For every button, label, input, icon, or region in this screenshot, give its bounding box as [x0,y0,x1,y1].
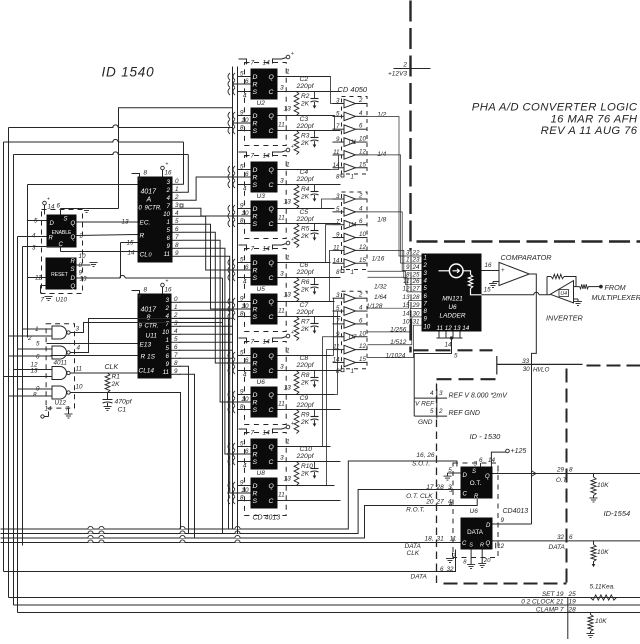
svg-text:14: 14 [333,356,340,363]
svg-text:4: 4 [359,110,363,117]
svg-text:8: 8 [569,467,573,474]
svg-text:D: D [253,74,258,81]
svg-text:8: 8 [144,170,148,177]
svg-text:CD 4013: CD 4013 [253,515,281,522]
svg-text:7: 7 [251,430,255,437]
svg-text:R: R [253,400,258,407]
svg-text:C: C [269,89,274,96]
svg-text:SET 19: SET 19 [542,591,564,598]
svg-text:220pf: 220pf [296,362,315,369]
svg-text:COMPARATOR: COMPARATOR [501,253,553,262]
svg-text:4017: 4017 [141,189,158,196]
svg-text:Q: Q [269,260,275,267]
svg-text:2K: 2K [300,140,310,147]
svg-text:1: 1 [286,348,290,355]
svg-text:E13: E13 [140,342,152,349]
svg-text:RESET: RESET [51,272,68,278]
svg-text:C: C [269,407,274,414]
svg-text:11: 11 [278,122,285,129]
svg-text:7: 7 [251,153,255,160]
svg-text:16, 26: 16, 26 [416,452,434,459]
svg-text:10: 10 [76,384,84,391]
svg-text:3: 3 [406,250,410,257]
svg-text:C9: C9 [300,395,309,402]
svg-text:5: 5 [36,341,40,348]
svg-text:12: 12 [497,543,505,550]
svg-text:11: 11 [450,536,457,543]
svg-text:1: 1 [286,69,290,76]
svg-text:28: 28 [568,606,577,613]
svg-text:REF V 8.000 *: REF V 8.000 * [449,393,494,400]
svg-text:2K: 2K [300,101,310,108]
svg-text:14: 14 [263,60,271,67]
svg-text:9: 9 [336,331,340,338]
svg-text:+: + [291,330,294,336]
svg-text:1/4: 1/4 [377,151,386,158]
svg-text:C2: C2 [300,76,309,83]
svg-text:R: R [253,175,258,182]
svg-text:11: 11 [333,244,339,251]
svg-text:S: S [472,469,476,475]
svg-text:S: S [253,89,258,96]
svg-text:3: 3 [167,179,171,186]
svg-text:24: 24 [412,264,421,271]
svg-text:HI/LO: HI/LO [533,367,550,374]
svg-text:8: 8 [336,368,340,375]
svg-text:6: 6 [359,218,363,225]
svg-text:Q: Q [485,474,490,480]
svg-text:D: D [253,299,258,306]
svg-text:R: R [253,214,258,221]
svg-text:3: 3 [76,326,80,333]
svg-text:2: 2 [438,408,443,415]
svg-text:U4: U4 [560,291,567,297]
svg-text:0 2 CLOCK 21: 0 2 CLOCK 21 [521,599,564,606]
svg-text:U1: U1 [349,139,357,146]
svg-text:9: 9 [166,361,170,368]
svg-text:5: 5 [166,345,170,352]
svg-text:Q: Q [71,221,76,227]
svg-text:1: 1 [286,439,290,446]
svg-text:220pf: 220pf [296,176,315,183]
svg-text:220pf: 220pf [296,402,315,409]
svg-text:CD4013: CD4013 [503,508,529,515]
svg-text:DATA: DATA [549,544,565,551]
svg-text:Q: Q [71,235,76,241]
svg-text:+: + [291,144,294,150]
svg-text:D: D [253,206,258,213]
svg-text:10: 10 [359,231,366,238]
svg-text:5: 5 [34,218,38,225]
svg-text:U3: U3 [257,193,266,200]
svg-text:4: 4 [77,345,81,352]
svg-text:Q: Q [486,541,491,547]
svg-text:S.O.T.: S.O.T. [412,461,430,468]
svg-text:S: S [253,314,258,321]
svg-text:R9: R9 [301,412,310,419]
svg-text:28: 28 [436,484,445,491]
svg-text:29: 29 [556,467,565,474]
svg-text:R4: R4 [301,186,310,193]
svg-text:1: 1 [351,174,354,181]
svg-text:9: 9 [501,517,505,524]
svg-text:R3: R3 [301,133,310,140]
svg-text:R: R [480,543,484,549]
svg-text:Q: Q [269,483,275,490]
svg-text:31: 31 [437,536,445,543]
svg-text:DATA: DATA [467,529,484,536]
svg-text:13: 13 [284,385,292,392]
svg-text:14: 14 [263,430,271,437]
svg-text:12: 12 [359,343,366,350]
svg-text:C6: C6 [300,262,309,269]
svg-text:7: 7 [251,246,255,253]
svg-text:11: 11 [278,492,285,499]
svg-text:20: 20 [425,499,434,506]
svg-text:18,: 18, [424,536,433,543]
svg-text:6: 6 [167,235,171,242]
svg-text:220pf: 220pf [296,453,315,460]
svg-text:13: 13 [30,368,38,375]
svg-text:REV A 11 AUG 76: REV A 11 AUG 76 [541,125,638,137]
svg-text:7: 7 [251,60,255,67]
svg-text:16: 16 [165,170,173,177]
svg-text:3: 3 [336,98,340,105]
svg-text:2K: 2K [300,233,310,240]
svg-text:C: C [269,128,274,135]
svg-text:1/1024: 1/1024 [386,353,406,360]
svg-text:Q: Q [269,74,275,81]
svg-text:7: 7 [167,203,171,210]
svg-text:C: C [462,541,467,547]
svg-text:220pf: 220pf [296,309,315,316]
svg-text:26: 26 [412,278,421,285]
svg-text:4: 4 [243,372,247,379]
svg-text:R: R [140,233,145,240]
svg-text:+: + [291,51,294,57]
svg-text:S: S [71,267,75,273]
svg-text:U10: U10 [56,297,68,304]
svg-text:3: 3 [280,455,284,462]
svg-text:D: D [71,276,76,282]
svg-text:14: 14 [333,257,340,264]
svg-text:31: 31 [413,319,420,326]
svg-text:D: D [253,392,258,399]
svg-text:13: 13 [402,294,410,301]
svg-text:2: 2 [165,305,170,312]
svg-text:4011: 4011 [54,360,68,367]
svg-text:+125: +125 [511,448,527,455]
svg-text:3: 3 [32,245,36,252]
svg-text:DATA: DATA [405,543,421,550]
svg-text:17: 17 [426,484,434,491]
svg-text:1: 1 [351,368,354,375]
svg-text:D: D [253,260,258,267]
svg-text:2: 2 [79,233,84,240]
svg-text:C: C [269,314,274,321]
svg-text:4: 4 [359,305,363,312]
svg-text:FROM: FROM [605,283,626,292]
svg-text:10: 10 [162,329,169,336]
svg-text:1: 1 [167,219,170,226]
svg-text:3: 3 [474,461,478,468]
svg-text:CD 4050: CD 4050 [338,85,368,94]
svg-text:ID 1540: ID 1540 [102,65,155,80]
svg-text:1: 1 [286,162,290,169]
svg-text:4: 4 [243,463,247,470]
svg-text:11: 11 [278,215,285,222]
svg-text:2K: 2K [300,194,310,201]
svg-text:4: 4 [448,499,452,506]
svg-text:U11: U11 [146,333,158,340]
svg-text:4: 4 [167,195,171,202]
svg-text:2: 2 [358,193,363,200]
svg-text:D: D [253,353,258,360]
svg-text:C1: C1 [118,407,127,414]
svg-text:Q: Q [269,113,275,120]
svg-text:O.T.: O.T. [556,477,568,484]
svg-text:4: 4 [359,205,363,212]
svg-text:1/32: 1/32 [374,284,387,291]
svg-text:10: 10 [402,319,410,326]
svg-text:+: + [291,421,294,427]
svg-text:Q: Q [269,206,275,213]
svg-text:U6: U6 [257,379,266,386]
svg-text:9: 9 [336,232,340,239]
svg-text:6: 6 [166,353,170,360]
svg-text:15: 15 [359,257,366,264]
svg-text:7: 7 [41,297,45,304]
svg-text:U4: U4 [349,222,357,229]
svg-text:R7: R7 [301,319,310,326]
svg-text:C: C [269,459,274,466]
svg-text:13: 13 [284,292,292,299]
svg-text:2: 2 [423,263,428,269]
svg-text:3: 3 [280,271,284,278]
svg-text:8: 8 [336,269,340,276]
svg-text:D: D [50,221,55,227]
svg-text:1: 1 [406,257,410,264]
svg-text:5: 5 [454,353,458,360]
svg-text:6: 6 [36,354,40,361]
svg-text:10: 10 [424,324,431,330]
svg-text:220pf: 220pf [296,123,315,130]
svg-text:15: 15 [484,287,492,294]
svg-text:7: 7 [336,219,340,226]
svg-text:S: S [253,498,258,505]
svg-text:11: 11 [278,308,285,315]
svg-text:10K: 10K [597,482,609,489]
svg-text:9: 9 [167,243,171,250]
svg-text:15: 15 [359,161,366,168]
svg-text:+: + [166,279,169,285]
svg-text:5: 5 [167,227,171,234]
svg-text:2K: 2K [300,380,310,387]
svg-text:14: 14 [48,204,56,211]
svg-text:D: D [253,167,258,174]
svg-text:C: C [463,492,468,498]
svg-text:19: 19 [569,599,577,606]
svg-text:4: 4 [243,93,247,100]
svg-text:R5: R5 [301,226,310,233]
svg-text:CL: CL [140,252,149,259]
svg-text:CLK: CLK [407,550,420,557]
svg-text:U6: U6 [470,508,479,515]
svg-text:R6: R6 [301,279,310,286]
svg-text:3: 3 [336,193,340,200]
svg-text:C: C [269,368,274,375]
svg-text:3: 3 [439,390,443,397]
svg-text:ENABLE: ENABLE [52,230,72,236]
svg-text:A: A [146,197,152,204]
svg-text:14: 14 [333,162,340,169]
svg-text:CTR.: CTR. [145,324,159,330]
svg-text:S: S [253,275,258,282]
svg-text:R: R [253,121,258,128]
svg-text:GND: GND [418,419,433,426]
svg-text:470pf: 470pf [115,399,133,406]
svg-text:R: R [253,452,258,459]
svg-text:7: 7 [251,339,255,346]
svg-text:2K: 2K [111,381,121,388]
svg-text:8: 8 [336,174,340,181]
svg-text:1: 1 [286,255,290,262]
svg-text:R: R [253,307,258,314]
svg-text:12: 12 [359,148,366,155]
svg-text:27: 27 [412,285,421,292]
svg-text:13: 13 [284,476,292,483]
svg-text:9: 9 [336,136,340,143]
svg-text:3: 3 [280,85,284,92]
svg-text:1: 1 [351,269,354,276]
svg-text:R: R [474,494,479,500]
svg-text:Q: Q [269,353,275,360]
svg-text:11: 11 [35,275,42,282]
svg-text:7: 7 [336,123,340,130]
svg-text:R.O.T.: R.O.T. [406,507,425,514]
svg-text:Q: Q [269,299,275,306]
svg-text:U5: U5 [257,286,266,293]
svg-text:Q: Q [71,284,76,290]
svg-text:3: 3 [336,292,340,299]
svg-text:C: C [269,275,274,282]
svg-text:10: 10 [79,253,87,260]
svg-text:1: 1 [166,337,169,344]
svg-text:S: S [253,128,258,135]
svg-text:2: 2 [358,292,363,299]
svg-text:1: 1 [424,256,427,262]
svg-text:7: 7 [336,318,340,325]
svg-text:1: 1 [496,469,500,476]
svg-text:C3: C3 [300,116,309,123]
svg-text:CLAMP 7: CLAMP 7 [536,606,564,613]
svg-text:30: 30 [413,310,421,317]
svg-text:32: 32 [447,566,455,573]
svg-text:+12V3: +12V3 [388,71,407,78]
svg-text:3: 3 [166,297,170,304]
svg-text:11 12 13 14: 11 12 13 14 [437,325,470,332]
svg-text:Q: Q [269,392,275,399]
svg-text:CL14: CL14 [139,368,155,375]
svg-text:13: 13 [284,199,292,206]
svg-text:S: S [64,217,68,223]
svg-text:6: 6 [440,566,444,573]
svg-text:C: C [269,182,274,189]
svg-text:11: 11 [164,251,170,258]
svg-text:C7: C7 [300,302,309,309]
svg-text:4: 4 [243,186,247,193]
svg-text:R: R [253,82,258,89]
svg-text:2: 2 [402,62,407,69]
svg-text:6: 6 [569,534,573,541]
svg-text:1/256: 1/256 [390,327,407,334]
svg-text:U2: U2 [257,100,266,107]
svg-text:CLK: CLK [105,364,119,371]
svg-text:6: 6 [57,203,61,210]
svg-text:4017: 4017 [141,307,158,314]
svg-text:3: 3 [280,178,284,185]
svg-text:220pf: 220pf [296,83,315,90]
svg-text:12: 12 [402,285,410,292]
svg-text:9CTR.: 9CTR. [145,206,162,212]
svg-text:INVERTER: INVERTER [546,314,583,323]
svg-text:4: 4 [430,390,434,397]
svg-text:220pf: 220pf [296,216,315,223]
svg-text:R: R [253,268,258,275]
svg-text:2mV: 2mV [492,393,509,400]
svg-text:1/64: 1/64 [374,294,387,301]
svg-text:10: 10 [359,330,366,337]
svg-text:4: 4 [32,233,36,240]
svg-text:S: S [253,368,258,375]
svg-text:16 MAR 76 AFH: 16 MAR 76 AFH [550,114,637,126]
svg-text:DATA: DATA [411,574,427,581]
svg-text:14: 14 [445,342,453,349]
svg-text:30: 30 [523,366,531,373]
svg-text:R: R [71,259,76,265]
svg-text:1/16: 1/16 [372,256,385,263]
svg-text:33: 33 [522,358,530,365]
svg-text:+: + [166,162,169,168]
svg-text:R2: R2 [301,93,310,100]
svg-text:S: S [253,221,258,228]
svg-text:+: + [291,237,294,243]
svg-text:1/128: 1/128 [366,303,383,310]
svg-text:14: 14 [263,153,271,160]
svg-text:11: 11 [278,401,285,408]
svg-text:20: 20 [483,558,491,564]
svg-text:11: 11 [403,278,410,285]
svg-text:R: R [49,236,54,242]
svg-text:V REF: V REF [415,401,435,408]
svg-text:15: 15 [402,302,410,309]
svg-text:R: R [253,361,258,368]
svg-text:6: 6 [359,317,363,324]
svg-text:R8: R8 [301,372,310,379]
svg-text:C: C [269,498,274,505]
svg-text:U7: U7 [349,334,357,341]
svg-text:14: 14 [127,250,135,257]
svg-text:C8: C8 [300,355,309,362]
svg-text:EC.: EC. [140,220,151,227]
svg-text:1/2: 1/2 [377,112,386,119]
svg-text:2K: 2K [300,471,310,478]
svg-text:22: 22 [412,250,421,257]
svg-text:Q: Q [269,167,275,174]
svg-text:5.11Kea.: 5.11Kea. [590,584,616,591]
svg-text:13: 13 [80,276,88,283]
svg-text:5: 5 [430,408,434,415]
